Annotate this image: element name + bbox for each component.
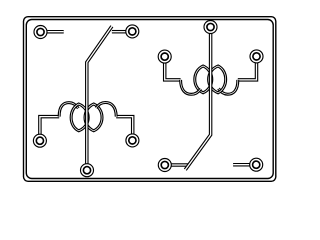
wire stub from pin 6 (NC contact K2)	[233, 163, 250, 167]
coil K2 right lead wire	[238, 63, 257, 80]
coil K1 loop 2	[85, 104, 102, 131]
pin 1 NC contact K1	[34, 26, 47, 39]
switch arm and common wire K2	[185, 34, 210, 170]
wire stub from pin 1 (NC contact K1)	[47, 30, 64, 34]
coil K2 left lead wire	[165, 63, 181, 80]
coil K2 loop 1	[209, 66, 226, 93]
pin 2 NO contact K1	[126, 25, 139, 38]
package outline inner border	[26, 20, 273, 179]
coil K1 left lead wire	[40, 117, 59, 135]
wire stub from pin 7 (NO contact K2)	[172, 163, 189, 167]
pin 8 common K2	[204, 21, 217, 34]
coil K2 loop 2	[195, 66, 212, 93]
coil K1 left hump	[59, 103, 78, 117]
relay K1	[33, 25, 138, 177]
coil K1 loop 1	[71, 104, 88, 131]
pin 5 coil K1 right	[126, 134, 139, 147]
package outline outer border	[24, 17, 276, 182]
wire stub from pin 2 (NO contact K1)	[112, 30, 126, 34]
relay K2 (rotated 180°)	[158, 21, 263, 172]
pin 9 coil K2 right	[250, 50, 263, 63]
pin 10 coil K2 left	[158, 50, 171, 63]
coil K2 right hump	[219, 80, 238, 94]
switch arm and common wire K1	[87, 26, 112, 163]
coil K2 left hump	[181, 80, 201, 94]
pin 7 NO contact K2	[158, 159, 171, 172]
pin 6 NC contact K2	[250, 158, 263, 171]
pin 3 common K1	[81, 164, 94, 177]
coil K1 right lead wire	[116, 117, 133, 134]
pin 4 coil K1 left	[33, 134, 46, 147]
coil K1 right hump	[96, 103, 116, 117]
